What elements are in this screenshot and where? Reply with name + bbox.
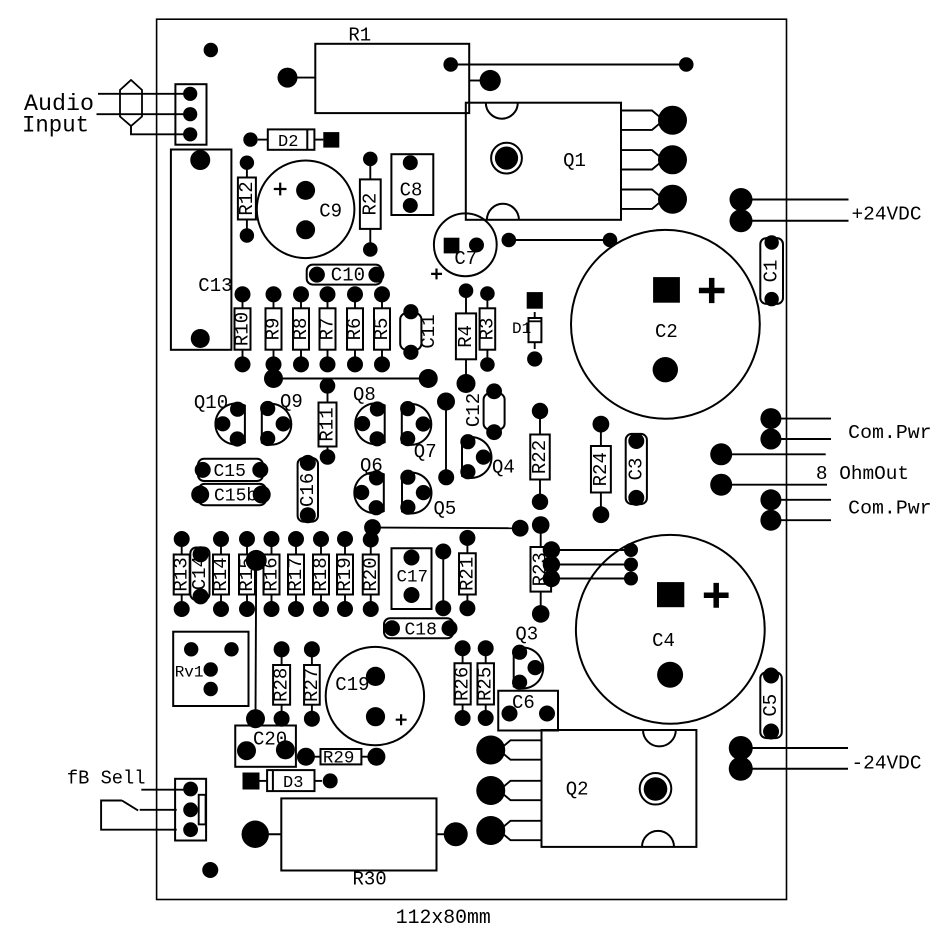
- pad node below R9: [264, 369, 283, 388]
- svg-text:R29: R29: [323, 749, 355, 769]
- wire Com.Pwr lower-1: [771, 499, 831, 501]
- svg-text:C10: C10: [331, 265, 365, 287]
- capacitor C15b: [191, 484, 271, 507]
- wire C7 to C2: [502, 233, 618, 248]
- svg-text:Q3: Q3: [515, 624, 538, 646]
- resistor R26: [452, 640, 474, 726]
- resistor R13: [171, 531, 193, 617]
- svg-text:Q5: Q5: [434, 498, 457, 520]
- wires R23 to C4: [543, 541, 638, 587]
- resistor R29: [297, 748, 386, 769]
- capacitor C12: [463, 383, 505, 440]
- resistor R12: [236, 156, 258, 243]
- wire +24VDC upper: [741, 199, 849, 201]
- capacitor C19 (electrolytic): [326, 647, 424, 745]
- pads Com.Pwr lower: [760, 489, 781, 530]
- wire R20 node horizontal: [364, 519, 529, 537]
- svg-text:R14: R14: [210, 557, 232, 591]
- svg-text:Q6: Q6: [360, 455, 383, 477]
- svg-text:R26: R26: [452, 667, 474, 701]
- svg-text:D3: D3: [283, 774, 303, 793]
- capacitor C13: [171, 150, 233, 350]
- svg-text:Q7: Q7: [414, 441, 437, 463]
- svg-text:C15: C15: [214, 462, 246, 482]
- resistor R19: [334, 531, 356, 617]
- transistor Q6: [354, 455, 384, 515]
- svg-text:C19: C19: [335, 674, 369, 696]
- wire audio-1: [98, 93, 190, 95]
- svg-text:R12: R12: [236, 181, 258, 215]
- resistor R27: [301, 641, 323, 726]
- resistor R15: [236, 531, 258, 617]
- svg-text:R18: R18: [310, 557, 332, 591]
- pads 8 OhmOut: [710, 443, 732, 495]
- svg-text:C20: C20: [253, 729, 287, 751]
- svg-text:C7: C7: [454, 248, 477, 270]
- svg-text:R19: R19: [334, 557, 356, 591]
- resistor R21: [456, 530, 478, 616]
- resistor R8: [290, 286, 312, 372]
- capacitor C17: [392, 548, 432, 609]
- svg-text:C17: C17: [397, 568, 429, 588]
- capacitor C9 (electrolytic): [257, 161, 355, 259]
- capacitor C15: [195, 459, 269, 482]
- PCB board outline: [157, 19, 787, 899]
- wire Com.Pwr lower-2: [771, 519, 831, 521]
- svg-text:R17: R17: [285, 557, 307, 591]
- connector fB Sell: [175, 779, 206, 841]
- svg-text:Input: Input: [22, 113, 89, 139]
- svg-text:Rv1: Rv1: [175, 664, 204, 682]
- svg-text:Com.Pwr: Com.Pwr: [848, 422, 931, 444]
- svg-text:R21: R21: [456, 557, 478, 591]
- switch symbol: [101, 801, 177, 830]
- transistor Q7: [400, 401, 437, 463]
- resistor R16: [261, 531, 283, 617]
- svg-text:C5: C5: [760, 694, 782, 717]
- resistor R9: [263, 286, 285, 372]
- label Audio Input: [22, 91, 94, 139]
- wire -24VDC lower: [741, 768, 848, 770]
- capacitor C8: [391, 154, 433, 215]
- resistor R7: [317, 286, 339, 372]
- resistor R1: [315, 25, 469, 114]
- svg-text:R2: R2: [359, 193, 381, 216]
- resistor R3: [476, 286, 498, 372]
- svg-text:R11: R11: [317, 407, 339, 441]
- svg-text:R4: R4: [455, 325, 477, 348]
- svg-text:C2: C2: [655, 321, 678, 343]
- svg-text:R8: R8: [290, 318, 312, 341]
- svg-text:Com.Pwr: Com.Pwr: [848, 497, 931, 519]
- svg-text:C8: C8: [400, 179, 423, 201]
- wire 8 OhmOut-2: [721, 484, 827, 486]
- potentiometer Rv1: [173, 632, 248, 706]
- transistor Q9: [260, 391, 303, 446]
- wire top node: [443, 57, 693, 72]
- audio plug symbol: [120, 80, 142, 126]
- transistor Q3: [512, 624, 543, 690]
- pads +24VDC: [730, 188, 753, 232]
- svg-text:C6: C6: [512, 692, 535, 714]
- svg-text:R22: R22: [529, 440, 551, 474]
- capacitor C5: [760, 668, 782, 740]
- resistor R20: [360, 532, 382, 618]
- wire +24VDC lower: [741, 220, 849, 222]
- transistor Q1 (TO-3P): [466, 103, 687, 220]
- wire audio-3: [131, 126, 190, 134]
- resistor R14: [210, 531, 232, 617]
- svg-text:Q10: Q10: [194, 392, 228, 414]
- svg-text:R28: R28: [271, 668, 293, 702]
- transistor Q10: [194, 392, 245, 447]
- resistor R25: [475, 640, 497, 726]
- pads -24VDC: [729, 736, 753, 781]
- svg-text:+24VDC: +24VDC: [852, 204, 922, 226]
- connector J1 audio: [175, 84, 206, 145]
- capacitor C16: [297, 455, 319, 523]
- wire R9 node to pad: [274, 369, 438, 388]
- resistor R22: [529, 403, 551, 510]
- svg-text:R1: R1: [348, 25, 371, 47]
- capacitor C2 (large electrolytic): [571, 230, 760, 419]
- wire R15 to C20: [246, 550, 267, 728]
- svg-text:R7: R7: [317, 318, 339, 341]
- svg-text:C9: C9: [319, 201, 342, 223]
- svg-text:C4: C4: [652, 630, 675, 652]
- svg-text:C13: C13: [198, 275, 232, 297]
- svg-text:C18: C18: [405, 620, 437, 640]
- capacitor C10: [307, 265, 385, 287]
- svg-text:Q4: Q4: [492, 457, 515, 479]
- resistor R6: [344, 286, 366, 372]
- svg-text:112x80mm: 112x80mm: [396, 907, 491, 930]
- capacitor C4 (large electrolytic): [576, 535, 765, 724]
- pad mounting bottom-left: [202, 862, 218, 878]
- wire Q7 to Q4 node: [437, 393, 455, 486]
- capacitor C3: [625, 433, 647, 506]
- svg-text:C3: C3: [625, 458, 647, 481]
- transistor Q5: [400, 470, 456, 520]
- capacitor C20: [235, 726, 296, 767]
- resistor R2: [359, 152, 381, 257]
- svg-text:8 OhmOut: 8 OhmOut: [816, 463, 909, 485]
- svg-text:Q8: Q8: [353, 384, 376, 406]
- wire -24VDC upper: [741, 747, 848, 749]
- svg-text:-24VDC: -24VDC: [852, 753, 922, 775]
- svg-text:Q9: Q9: [280, 391, 303, 413]
- wire R1 right to pad: [469, 70, 501, 91]
- capacitor C1: [760, 235, 783, 306]
- resistor R11: [317, 378, 339, 465]
- resistor R23: [530, 516, 552, 623]
- resistor R10: [232, 286, 254, 372]
- pad R1 left: [278, 68, 316, 88]
- svg-text:fB Sell: fB Sell: [67, 768, 146, 790]
- transistor Q4: [460, 434, 515, 479]
- capacitor C18: [384, 618, 458, 640]
- svg-text:R24: R24: [590, 452, 612, 486]
- svg-text:C11: C11: [418, 314, 440, 348]
- wire 8 OhmOut-1: [721, 453, 826, 455]
- svg-text:R27: R27: [301, 668, 323, 702]
- wire C17 right: [435, 544, 451, 617]
- svg-text:Q2: Q2: [566, 779, 589, 801]
- resistor R18: [310, 531, 332, 617]
- svg-text:R25: R25: [475, 667, 497, 701]
- svg-text:C15b: C15b: [214, 487, 257, 507]
- resistor R5: [371, 286, 393, 372]
- resistor R17: [285, 531, 307, 617]
- pads Com.Pwr upper: [760, 408, 781, 449]
- pad mounting top-left: [204, 43, 218, 57]
- svg-text:C16: C16: [297, 473, 319, 507]
- capacitor C6: [498, 691, 558, 731]
- wire audio-2: [97, 113, 191, 115]
- svg-text:R20: R20: [360, 557, 382, 591]
- diode D3: [243, 770, 338, 793]
- resistor R24: [590, 416, 612, 523]
- svg-text:C12: C12: [463, 393, 485, 427]
- svg-text:R5: R5: [371, 318, 393, 341]
- svg-text:R30: R30: [353, 869, 387, 891]
- transistor Q2 (TO-3P): [476, 730, 696, 847]
- svg-text:C14: C14: [189, 556, 211, 590]
- svg-text:R3: R3: [476, 318, 498, 341]
- svg-text:D2: D2: [278, 133, 298, 152]
- svg-text:D1: D1: [512, 320, 531, 338]
- svg-text:Q1: Q1: [563, 150, 586, 172]
- svg-text:R10: R10: [232, 312, 254, 346]
- resistor R28: [271, 641, 293, 726]
- diode D2: [243, 129, 339, 152]
- wire Com.Pwr upper-2: [771, 438, 831, 440]
- wire Com.Pwr upper-1: [771, 418, 831, 420]
- resistor R4: [455, 283, 477, 393]
- diode D1: [512, 292, 543, 367]
- wire fB-1: [141, 789, 184, 791]
- resistor R30: [242, 798, 468, 890]
- svg-text:R9: R9: [263, 318, 285, 341]
- capacitor C7 (electrolytic): [431, 213, 497, 279]
- svg-text:C1: C1: [761, 260, 783, 283]
- capacitor C14: [189, 546, 211, 604]
- capacitor C11: [400, 304, 440, 360]
- svg-text:R6: R6: [344, 318, 366, 341]
- transistor Q8: [353, 384, 385, 446]
